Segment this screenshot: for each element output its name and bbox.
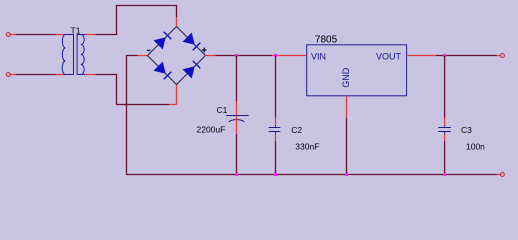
pin stub: 7805 GND [346, 96, 348, 118]
capacitor C3 bottom plate [438, 131, 451, 133]
junction: C2 top tap [274, 54, 277, 57]
svg-text:7805: 7805 [315, 35, 338, 46]
capacitor C3 top plate [438, 127, 451, 129]
capacitor C2 stems [275, 125, 277, 133]
transformer T1 core line left [73, 35, 75, 75]
wire: C3 lower [444, 141, 446, 175]
pin stub: bridge AC top [176, 17, 178, 27]
terminal P1 (AC input top) [6, 33, 10, 37]
wire: C1 lower [236, 134, 238, 175]
wire: bridge minus down to 0V bus [127, 56, 237, 175]
pin stub: C2 bottom [275, 134, 277, 141]
svg-text:100n: 100n [466, 142, 485, 152]
bridge minus label [147, 49, 151, 51]
svg-text:C3: C3 [461, 125, 472, 135]
svg-text:VOUT: VOUT [376, 51, 402, 61]
bridge plus label [202, 48, 207, 53]
capacitor C2 top plate [269, 127, 281, 129]
wire: C3 upper [444, 56, 446, 118]
pin stub: transformer secondary bottom [85, 74, 95, 76]
svg-text:2200uF: 2200uF [197, 125, 226, 135]
pin stub: bridge minus [138, 55, 148, 57]
junction: GND bus tap [345, 173, 348, 176]
pin stub: transformer primary bottom [56, 74, 65, 76]
terminal P2 (AC input bottom) [6, 73, 10, 77]
svg-text:C2: C2 [291, 125, 302, 135]
diode D1 (top-left) [154, 32, 171, 49]
pin stub: 7805 VOUT [407, 55, 436, 57]
bridge rectifier edge BL [148, 56, 177, 85]
pin stub: C3 bottom [444, 134, 446, 141]
transformer T1 core line right [76, 35, 78, 75]
pin stub: bridge AC bottom vertical [176, 85, 178, 105]
diode D2 (top-right) [183, 33, 200, 50]
pin stub: bridge plus [206, 55, 216, 57]
svg-text:C1: C1 [217, 105, 228, 115]
pin stub: C1 top [236, 101, 238, 119]
pin stub: transformer secondary top [85, 34, 95, 36]
terminal output 0V [500, 173, 504, 177]
wire: GND to 0V bus [346, 118, 348, 175]
junction: C1 top tap [235, 54, 238, 57]
capacitor C2 bottom plate [269, 131, 281, 133]
wire: secondary bottom to bridge AC bottom [95, 75, 169, 105]
junction: C2 bus tap [274, 173, 277, 176]
wire: C2 upper [275, 56, 277, 118]
wire: 0V bus to output terminal [237, 174, 497, 176]
svg-text:330nF: 330nF [295, 142, 319, 152]
pin stub: terminal output 0V [497, 174, 500, 176]
pin stub: bridge AC bottom horizontal [169, 104, 177, 106]
transformer T1 secondary side connectors [77, 35, 85, 75]
svg-text:VIN: VIN [311, 51, 326, 61]
junction: C3 bus tap [443, 173, 446, 176]
pin stub: transformer primary top [56, 34, 65, 36]
wire: bridge plus to VIN [216, 55, 273, 57]
svg-text:GND: GND [341, 67, 351, 88]
pin stub: terminal output plus [497, 55, 500, 57]
pin stub: 7805 VIN [272, 55, 307, 57]
pin stub: C2 top [275, 118, 277, 126]
wire: terminal P2 to transformer primary bottom [16, 74, 56, 76]
wire: secondary top to bridge AC top [95, 6, 176, 35]
capacitor C1 curved plate [229, 120, 244, 122]
bridge rectifier edge BR [177, 56, 206, 85]
pin stub: terminal P1 [11, 34, 17, 36]
terminal output plus [500, 54, 504, 58]
capacitor C3 stems [444, 125, 446, 133]
transformer T1 secondary winding (4 bumps) [81, 35, 84, 75]
wire: C1 upper [236, 56, 238, 102]
transformer T1 primary side connectors [65, 35, 73, 75]
diode D4 (bottom-right) [183, 61, 200, 78]
diode D3 (bottom-left) [154, 62, 171, 79]
bridge rectifier edge TL [148, 27, 177, 56]
regulator U1 7805 box [307, 45, 407, 96]
wire: VOUT to output terminal [436, 55, 497, 57]
junction: C1 bus tap [235, 173, 238, 176]
capacitor C1 top plate [226, 115, 249, 117]
pin stub: C3 top [444, 118, 446, 126]
junction: C3 top tap [443, 54, 446, 57]
wire: terminal P1 to transformer primary top [16, 34, 56, 36]
pin stub: C1 bottom [236, 119, 238, 134]
wire: C2 lower [275, 141, 277, 175]
bridge rectifier edge TR [177, 27, 206, 56]
pin stub: terminal P2 [11, 74, 17, 76]
transformer T1 primary winding (3 bumps) [62, 35, 65, 75]
